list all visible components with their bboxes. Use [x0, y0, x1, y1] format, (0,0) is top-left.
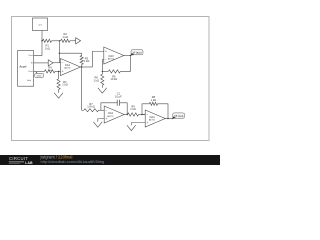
svg-text:1ms: 1ms [37, 76, 41, 78]
flag F1 (open triangle terminal) [76, 38, 81, 44]
wire OA3 feedback drop [120, 56, 130, 72]
annotation bubble 1ms [35, 72, 44, 78]
svg-text:OA3: OA3 [108, 54, 114, 58]
op-amp OA4 AD711 [145, 110, 165, 127]
junction dots [41, 40, 168, 119]
resistor R5 (OA3 feedback 10k) [108, 70, 120, 73]
op-amp OA3 AD711 [104, 47, 124, 64]
svg-text:−: − [146, 112, 148, 116]
flag F2 (open triangle terminal) on OA1 inverting line [48, 60, 53, 66]
resistor R7 (OA2 input 1.8k) [84, 109, 99, 112]
svg-text:+: + [62, 69, 64, 73]
wire Accel pin3 to resistor R9 [34, 70, 45, 72]
wire R4 to ground [58, 90, 60, 93]
svg-text:10 kΩ: 10 kΩ [110, 77, 117, 81]
svg-text:Accel: Accel [19, 65, 26, 69]
wire R9 to OA1 plus input [55, 70, 61, 72]
resistor R3 (OA1 feedback) [80, 56, 83, 65]
svg-text:OA2: OA2 [108, 111, 114, 115]
svg-text:1 kΩ: 1 kΩ [84, 59, 89, 63]
svg-text:10 µF: 10 µF [115, 94, 122, 98]
wire OA1 output [81, 66, 93, 68]
wire Accel pin2 to flag F2 [34, 62, 49, 64]
op-amp OA2 AD711 [104, 106, 124, 123]
ground G3 [93, 122, 102, 127]
capacitor C1 10uF [117, 100, 119, 106]
svg-text:1 kΩ: 1 kΩ [93, 78, 98, 82]
svg-text:+1V: +1V [38, 25, 42, 27]
svg-text:1 kΩ: 1 kΩ [48, 70, 53, 72]
accelerometer block X1 (Accel) [18, 51, 34, 87]
svg-text:Xout: Xout [28, 70, 33, 73]
svg-text:AD711: AD711 [107, 115, 114, 118]
svg-text:1 kΩ: 1 kΩ [130, 107, 135, 111]
wire R1 to node B [52, 40, 61, 42]
svg-text:AD711: AD711 [108, 58, 115, 61]
svg-text:−: − [105, 58, 107, 62]
wire R6 to ground [101, 85, 103, 88]
svg-text:Vf (acc): Vf (acc) [133, 51, 142, 55]
svg-text:OA1: OA1 [65, 63, 71, 67]
svg-text:1 kΩ: 1 kΩ [44, 46, 49, 50]
wire OA1 feedback top [59, 52, 81, 54]
wire OA1 output down to OA2 input row [82, 67, 84, 110]
node flag Vf(acc) [130, 50, 143, 56]
wire R7 to OA2 minus [99, 109, 105, 111]
wire junction down to R6 [101, 71, 103, 74]
resistor R10 (OA4 input) [128, 113, 139, 116]
wire OA2 output [124, 114, 127, 116]
node flag V5(out) [172, 113, 185, 120]
wire node B rail down [58, 41, 60, 63]
wire Accel pin1 up to node A [34, 41, 42, 56]
svg-text:AD711: AD711 [149, 119, 156, 122]
svg-text:Vout: Vout [28, 54, 33, 57]
wire plus node down to R4 [58, 71, 60, 78]
wire flag F2 to OA1 minus input [53, 62, 60, 64]
svg-text:1 kΩ: 1 kΩ [151, 98, 156, 102]
wire OA3 minus stub [102, 60, 104, 72]
svg-text:+: + [105, 49, 107, 53]
svg-text:St: St [31, 62, 33, 65]
resistor R4 [57, 79, 60, 90]
resistor R8 (OA4 feedback) [149, 102, 157, 105]
ground G2 [98, 88, 107, 93]
ground G1 [54, 93, 63, 98]
footer black bar [0, 155, 220, 165]
svg-text:1.8 kΩ: 1.8 kΩ [87, 105, 95, 109]
op-amp OA1 AD711 [61, 59, 81, 76]
wire R5 to junction [102, 70, 108, 72]
svg-text:V5 (out): V5 (out) [174, 114, 183, 118]
wire C1 to output [120, 103, 128, 115]
wire V1 to node A [41, 31, 43, 41]
wire riser to OA3 plus [93, 51, 104, 67]
svg-text:OA4: OA4 [149, 115, 155, 119]
svg-text:LAB: LAB [25, 161, 33, 165]
wire OA4 feedback rail [142, 104, 149, 115]
wire R2 to flag F1 [70, 40, 76, 42]
wire OA4 plus to ground [131, 123, 145, 125]
resistor R1 [43, 39, 52, 42]
wire OA2 feedback riser [101, 103, 117, 110]
resistor R9 (OA1 input) [45, 70, 56, 73]
wire R10 to OA4 minus rail [139, 114, 146, 116]
svg-text:AD711: AD711 [64, 67, 71, 70]
wire OA3 output to flag [124, 55, 131, 57]
resistor R2 [61, 39, 70, 42]
svg-text:1 kΩ: 1 kΩ [62, 35, 67, 39]
wire R8 to output riser [158, 104, 168, 119]
svg-text:−: − [62, 61, 64, 65]
resistor R6 (OA3 ground leg) [101, 74, 104, 85]
svg-text:1 kΩ: 1 kΩ [62, 83, 67, 87]
svg-text:http://circuitlab.com/c/6k1aud: http://circuitlab.com/c/6k1aud8V5hbg [41, 159, 105, 164]
wire OA2 plus to ground [98, 119, 104, 122]
voltage source V1 (function generator box) [33, 18, 48, 31]
schematic border frame [12, 17, 210, 141]
wire OA4 output to flag [165, 118, 172, 120]
ground G4 [127, 125, 136, 130]
